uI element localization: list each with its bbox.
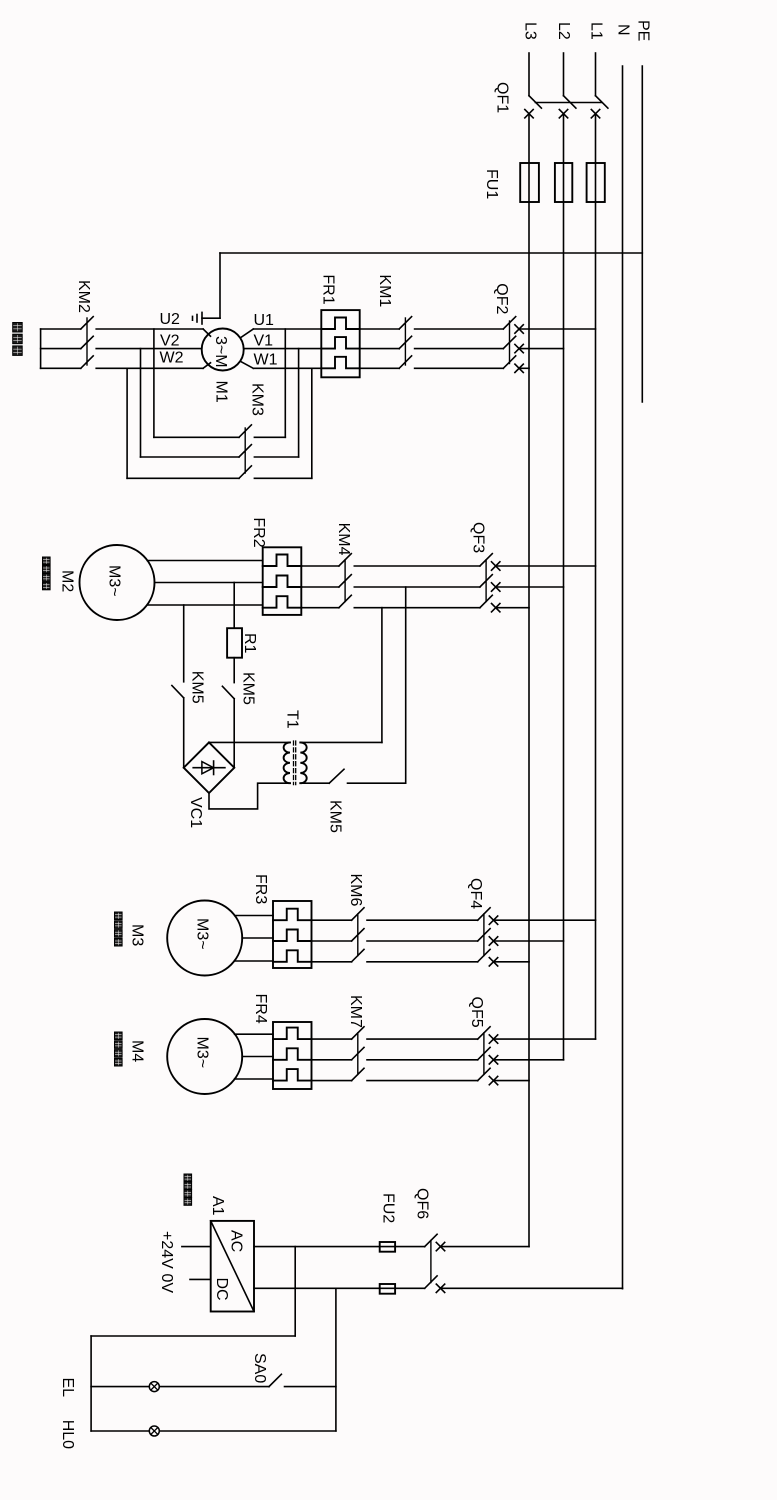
- svg-text:L3: L3: [522, 22, 539, 40]
- svg-text:FR2: FR2: [250, 517, 267, 547]
- svg-text:QF5: QF5: [468, 997, 485, 1028]
- svg-text:N: N: [615, 24, 632, 36]
- svg-text:PE: PE: [635, 20, 652, 41]
- svg-text:EL: EL: [59, 1378, 76, 1398]
- svg-text:W1: W1: [254, 351, 278, 368]
- svg-text:FR3: FR3: [252, 874, 269, 904]
- svg-text:KM5: KM5: [327, 800, 344, 833]
- svg-text:QF1: QF1: [494, 82, 511, 113]
- svg-text:KM4: KM4: [335, 523, 352, 556]
- svg-text:M3~: M3~: [194, 918, 211, 950]
- svg-text:KM5: KM5: [240, 672, 257, 705]
- svg-text:A1: A1: [209, 1196, 226, 1216]
- svg-text:QF3: QF3: [469, 522, 486, 553]
- svg-text:3~M: 3~M: [212, 336, 229, 368]
- svg-text:0V: 0V: [158, 1274, 175, 1294]
- svg-text:L1: L1: [588, 22, 605, 40]
- svg-text:FU2: FU2: [380, 1193, 397, 1223]
- svg-text:M3: M3: [129, 924, 146, 946]
- svg-text:M2: M2: [59, 570, 76, 592]
- svg-text:V1: V1: [254, 332, 274, 349]
- svg-text:FR1: FR1: [320, 274, 337, 304]
- svg-text:HL0: HL0: [59, 1420, 76, 1449]
- svg-text:SA0: SA0: [251, 1353, 268, 1383]
- svg-text:M3~: M3~: [106, 565, 123, 597]
- svg-text:KM7: KM7: [347, 995, 364, 1028]
- svg-text:+24V: +24V: [158, 1231, 175, 1269]
- svg-text:QF4: QF4: [467, 878, 484, 909]
- svg-text:M4: M4: [129, 1040, 146, 1062]
- svg-text:T1: T1: [284, 710, 301, 729]
- svg-text:KM3: KM3: [248, 383, 265, 416]
- svg-text:QF6: QF6: [414, 1188, 431, 1219]
- svg-text:KM1: KM1: [376, 274, 393, 307]
- svg-text:L2: L2: [555, 22, 572, 40]
- svg-text:KM2: KM2: [75, 280, 92, 313]
- svg-text:M3~: M3~: [194, 1037, 211, 1069]
- svg-text:DC: DC: [213, 1278, 230, 1301]
- svg-text:M1: M1: [213, 381, 230, 403]
- svg-text:QF2: QF2: [493, 283, 510, 314]
- svg-text:U2: U2: [160, 311, 181, 328]
- svg-text:U1: U1: [254, 312, 275, 329]
- svg-text:V2: V2: [160, 333, 180, 350]
- svg-text:KM6: KM6: [347, 874, 364, 907]
- svg-text:W2: W2: [160, 350, 184, 367]
- svg-text:R1: R1: [241, 633, 258, 654]
- svg-text:KM5: KM5: [189, 671, 206, 704]
- svg-text:FR4: FR4: [252, 994, 269, 1024]
- svg-text:VC1: VC1: [187, 797, 204, 828]
- svg-text:AC: AC: [228, 1230, 245, 1252]
- svg-text:FU1: FU1: [483, 169, 500, 199]
